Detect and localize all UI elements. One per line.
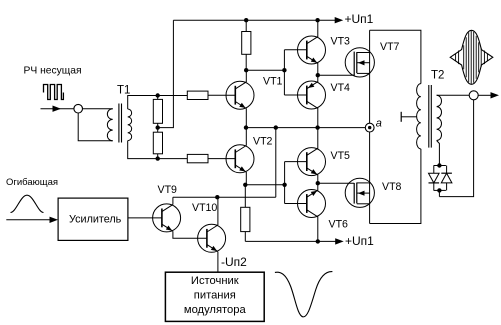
wire xyxy=(157,96,159,100)
wire amplifier to VT9 base xyxy=(128,217,162,219)
junction xyxy=(282,68,286,72)
input terminal circle xyxy=(74,104,83,113)
wire VT7 drain to T2 xyxy=(370,30,421,83)
junction xyxy=(243,183,247,187)
wire VT1 collector xyxy=(245,70,247,82)
transistor VT9 xyxy=(153,204,181,232)
junction xyxy=(244,18,248,22)
junction xyxy=(282,183,286,187)
junction xyxy=(437,163,441,167)
resistor R3 xyxy=(187,91,208,99)
svg-text:T1: T1 xyxy=(117,85,130,97)
junction xyxy=(156,93,160,97)
wire VT3 collector xyxy=(317,20,319,37)
junction xyxy=(437,188,441,192)
arrowhead +Un1 bottom xyxy=(335,238,344,244)
wire VT4 emitter xyxy=(317,75,319,82)
transistor VT1 xyxy=(226,81,254,109)
wire terminal return to T1 bottom xyxy=(78,113,113,141)
svg-text:VT6: VT6 xyxy=(329,219,349,231)
transformer T1 core xyxy=(118,104,120,143)
svg-text:модулятора: модулятора xyxy=(184,304,247,316)
transistor VT7 (MOSFET) xyxy=(345,48,374,77)
wire rail to R4 xyxy=(158,158,188,160)
wire T1 secondary top lead xyxy=(128,96,158,110)
wire to VT6 base xyxy=(285,203,307,205)
junction xyxy=(315,18,319,22)
wire R5 to VT1 collector xyxy=(245,54,247,70)
junction xyxy=(274,125,278,129)
junction xyxy=(156,156,160,160)
wire VT5 collector xyxy=(317,128,319,150)
wire VT10 collector xyxy=(217,197,219,225)
transistor VT4 xyxy=(298,81,326,109)
wire output return drop xyxy=(439,100,473,197)
wire gate lead VT7 xyxy=(318,74,354,76)
transistor VT5 xyxy=(298,148,326,176)
svg-text:Источник: Источник xyxy=(191,275,239,287)
wire VT4 collector xyxy=(317,107,319,127)
wire VT2 collector xyxy=(245,128,247,146)
diode VD2 (right, pointing up) xyxy=(446,166,448,174)
transistor VT10 xyxy=(198,224,226,252)
wire rail to R5 xyxy=(245,20,247,31)
svg-text:Усилитель: Усилитель xyxy=(69,214,122,226)
arrowhead output xyxy=(491,92,500,98)
wire VT1 emitter xyxy=(245,108,247,127)
junction xyxy=(244,125,248,129)
AM modulated output icon xyxy=(450,30,493,84)
svg-text:VT4: VT4 xyxy=(331,82,351,94)
wire VT2 emitter to R6 xyxy=(244,185,246,208)
wire to VT3 base xyxy=(284,49,306,51)
junction xyxy=(316,181,320,185)
wire R4 to VT2 base xyxy=(208,158,235,160)
wire diode branch top xyxy=(434,165,446,167)
svg-text:+Uп1: +Uп1 xyxy=(345,234,374,248)
svg-text:VT9: VT9 xyxy=(158,184,178,196)
wire VT1 collector to VT3/VT4 bases xyxy=(246,69,284,71)
svg-text:a: a xyxy=(376,117,382,129)
junction xyxy=(215,195,219,199)
svg-text:VT10: VT10 xyxy=(192,202,217,214)
wire output to arrow xyxy=(478,94,491,96)
wire VT6 bottom lead xyxy=(317,216,319,242)
wire VT3 emitter xyxy=(317,62,319,75)
wire diode to output return xyxy=(438,190,440,196)
wire VT2 emitter to VT5/VT6 bases xyxy=(245,184,284,186)
wire VT2 emitter xyxy=(245,172,247,185)
power supply block (Источник питания модулятора) xyxy=(165,272,264,321)
wire node-a line xyxy=(246,127,365,129)
wire diode branch bottom xyxy=(434,189,446,191)
svg-text:VT5: VT5 xyxy=(331,150,351,162)
svg-text:VT8: VT8 xyxy=(382,181,402,193)
svg-text:VT3: VT3 xyxy=(331,36,351,48)
wire T2 primary bottom to VT8 xyxy=(370,149,421,224)
wire VT7-VT8 column xyxy=(369,30,371,223)
resistor R5 xyxy=(242,32,251,55)
wire VT5/VT6 base column xyxy=(284,162,286,204)
wire VT9 emitter to VT10 base xyxy=(173,231,207,238)
transformer T1 primary winding xyxy=(107,109,112,141)
transistor VT8 (MOSFET) xyxy=(345,178,374,207)
wire modulator collector rail xyxy=(173,196,276,198)
wire R3 to VT1 base xyxy=(208,94,235,96)
wire +Un1 bottom rail xyxy=(245,240,336,242)
transformer T1 secondary winding xyxy=(128,109,132,141)
wire modulator rail riser xyxy=(275,128,277,198)
wire envelope input line xyxy=(6,219,51,221)
envelope bell icon xyxy=(11,195,44,212)
resistor R1 xyxy=(153,99,162,123)
wire VT9 collector xyxy=(172,197,174,204)
arrowhead +Un1 top xyxy=(335,17,344,23)
transistor VT2 xyxy=(226,145,254,173)
resistor R4 xyxy=(187,154,208,162)
transformer T2 secondary winding xyxy=(437,95,442,140)
wire input line xyxy=(41,108,74,110)
arrowhead input xyxy=(53,106,62,112)
junction xyxy=(316,239,320,243)
transistor VT3 xyxy=(298,36,326,64)
resistor R6 xyxy=(241,207,250,231)
RF burst icon xyxy=(44,85,64,100)
wire R6 to bottom rail xyxy=(244,232,246,242)
wire xyxy=(157,123,159,132)
resistor R2 xyxy=(153,132,162,154)
wire to VT5 base xyxy=(285,161,307,163)
svg-text:T2: T2 xyxy=(431,70,444,82)
transformer T2 center tap xyxy=(400,112,402,122)
junction xyxy=(315,125,319,129)
wire T2 secondary top lead xyxy=(437,94,470,96)
arrowhead envelope input xyxy=(50,217,59,223)
diode VD1 (left, pointing down) xyxy=(433,166,435,174)
svg-text:Огибающая: Огибающая xyxy=(6,177,58,188)
svg-text:+Uп1: +Uп1 xyxy=(345,12,374,26)
wire +Un1 top rail xyxy=(173,19,335,21)
svg-text:VT2: VT2 xyxy=(253,136,273,148)
transformer T2 core xyxy=(428,85,430,148)
wire VT6 emitter (top) xyxy=(317,183,319,191)
transformer T2 primary winding xyxy=(417,84,421,149)
amplifier block (Усилитель) xyxy=(58,198,128,240)
junction xyxy=(244,68,248,72)
wire gate lead VT8 xyxy=(318,182,354,184)
wire VT10 emitter xyxy=(217,252,219,273)
output terminal circle xyxy=(469,91,478,100)
junction xyxy=(156,125,160,129)
svg-text:VT7: VT7 xyxy=(380,41,400,53)
wire VT5 emitter xyxy=(317,174,319,183)
wire rail to R3 xyxy=(158,95,188,97)
svg-text:VT1: VT1 xyxy=(263,75,283,87)
wire T1 secondary bottom lead xyxy=(128,141,158,159)
wire to VT4 base xyxy=(284,94,306,96)
svg-text:РЧ несущая: РЧ несущая xyxy=(24,66,82,77)
wire divider mid to +Un1 rail xyxy=(158,20,174,127)
wire terminal to T1 top xyxy=(83,108,113,110)
inverted envelope icon xyxy=(275,272,333,317)
svg-text:-Uп2: -Uп2 xyxy=(221,255,247,269)
svg-text:питания: питания xyxy=(194,290,236,302)
junction xyxy=(316,73,320,77)
transistor VT6 xyxy=(298,190,326,218)
wire VT3/VT4 base column xyxy=(283,50,285,95)
wire T2 secondary bottom lead xyxy=(437,141,440,166)
wire xyxy=(157,154,159,159)
node a xyxy=(365,123,374,132)
